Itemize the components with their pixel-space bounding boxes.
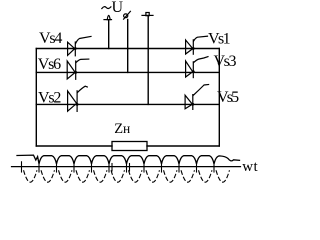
thyristor VS6 [67, 59, 89, 79]
thyristor VS2 [68, 86, 88, 111]
waveform: axis tick marks [22, 162, 215, 172]
wire: load line right [147, 145, 219, 147]
wire: phase lead 3 [147, 16, 149, 105]
label ~U [102, 7, 111, 9]
waveform: negative half-waves (dashed arcs) [24, 171, 230, 182]
waveform axis (wt) [12, 166, 241, 168]
svg-text:wt: wt [242, 159, 258, 175]
wire: phase lead 1 [108, 20, 110, 49]
svg-text:Vs2: Vs2 [38, 89, 61, 106]
svg-text:Vs3: Vs3 [214, 53, 237, 70]
terminal: phase input 3 (arrow) [142, 13, 153, 16]
thyristor VS4 [68, 36, 91, 55]
terminal: phase input 1 (arrow) [104, 15, 112, 19]
svg-text:Vs1: Vs1 [208, 30, 231, 47]
thyristor VS1 [186, 36, 208, 54]
svg-text:U: U [112, 0, 124, 16]
terminal: phase input 2 (arrow) [124, 11, 131, 19]
wire: phase line 3 [36, 103, 219, 105]
wire: phase line 2 [36, 71, 219, 73]
wire: left DC bus [35, 49, 37, 147]
svg-text:Vs5: Vs5 [217, 89, 239, 106]
waveform: rectified envelope (solid humps) [17, 155, 240, 164]
svg-text:Vs4: Vs4 [39, 30, 62, 47]
wire: phase lead 2 [127, 20, 129, 73]
wire: phase line 1 [36, 48, 219, 50]
junction blob at Vs3 label V vertex on right bus [218, 63, 221, 67]
svg-text:Vs6: Vs6 [38, 56, 61, 73]
thyristor VS3 [186, 57, 208, 78]
load resistor Zн (box) [112, 142, 147, 151]
svg-text:Zн: Zн [114, 121, 130, 137]
thyristor VS5 [185, 85, 209, 110]
wire: load line left [36, 145, 112, 147]
wire: right DC bus [218, 49, 220, 147]
